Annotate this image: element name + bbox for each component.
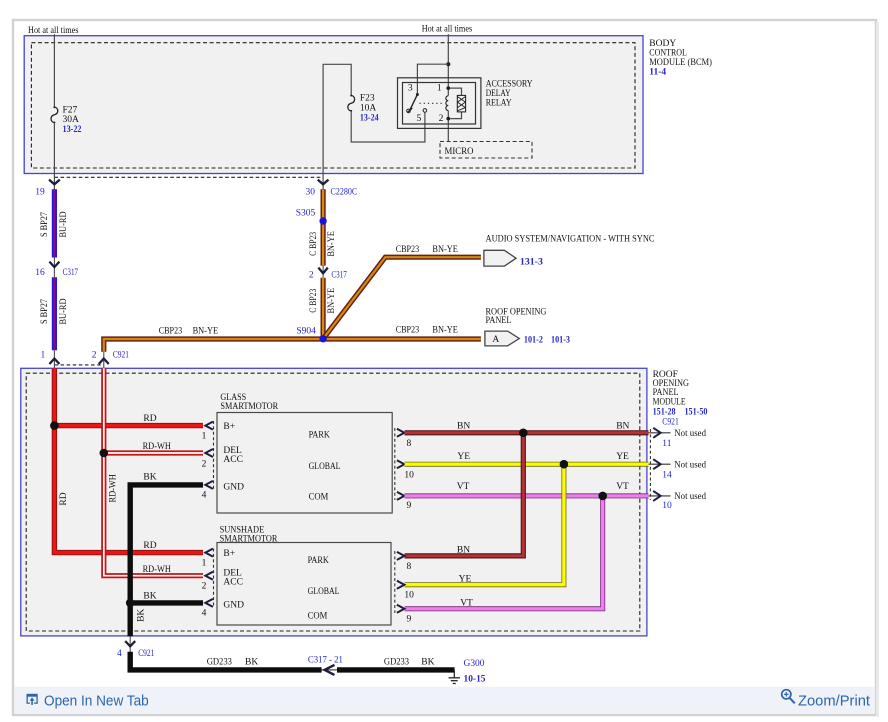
svg-text:30A: 30A (63, 115, 80, 125)
svg-text:RD: RD (143, 541, 156, 551)
relay switch arm pin 3 to 5 (407, 93, 427, 113)
svg-text:Not used: Not used (674, 492, 706, 502)
pin 19 exit arrow C2280C (35, 180, 60, 198)
svg-text:Hot at all times: Hot at all times (28, 26, 79, 36)
sunshade pin 2 arrow (202, 572, 213, 592)
module name label (653, 370, 708, 428)
svg-text:2: 2 (202, 459, 207, 469)
svg-text:151-50: 151-50 (685, 408, 708, 418)
wire branch to relay pin 3 (417, 64, 448, 94)
BCM name label (649, 39, 712, 78)
C921 pin 4 exit arrow bottom (117, 636, 155, 659)
svg-text:30: 30 (306, 187, 316, 197)
svg-text:131-3: 131-3 (520, 257, 543, 267)
relay resistor parallel branch (450, 88, 465, 119)
label Hot at all times (left) (28, 26, 79, 36)
sunshade pin 8 arrow (397, 552, 412, 572)
wire hot feed 2 vertical (447, 34, 449, 141)
svg-text:C921: C921 (662, 418, 679, 428)
svg-text:Not used: Not used (674, 460, 706, 470)
wire BK GD233 to inline connector (130, 652, 321, 670)
wire YE vertical to sunshade pin 10 (405, 464, 564, 585)
wire SBB27 BU-RD segment 1 (40, 189, 69, 257)
C921 pin 11 exit arrow (649, 428, 707, 449)
svg-text:VT: VT (616, 482, 629, 492)
svg-text:F23: F23 (360, 93, 375, 103)
splice S904 (296, 327, 326, 343)
glass pin 2 arrow (202, 449, 213, 469)
connector C921 dashed line top (54, 364, 103, 366)
svg-text:VT: VT (457, 482, 470, 492)
wire RD-WH vertical from C921-2 to sunshade ACC (104, 368, 203, 575)
svg-text:PANEL: PANEL (486, 316, 512, 326)
svg-text:GLOBAL: GLOBAL (309, 462, 341, 472)
glass left pin dashed connector line (213, 421, 215, 489)
sunshade right pin dashed connector line (394, 551, 396, 613)
svg-text:101-3: 101-3 (551, 335, 570, 345)
svg-text:PARK: PARK (309, 431, 330, 441)
wire BN glass pin 8 to C921-11 (405, 421, 649, 432)
svg-text:BN-YE: BN-YE (432, 326, 458, 336)
glass pin 1 arrow (202, 422, 213, 442)
wire RD branch to glass B+ (54, 414, 203, 426)
svg-text:BK: BK (143, 591, 156, 601)
svg-text:A: A (492, 335, 499, 345)
wire BN-YE diagonal S904 to audio connector (323, 245, 481, 339)
svg-text:BN-YE: BN-YE (327, 231, 337, 257)
C921 pin 10 exit arrow (649, 491, 707, 511)
svg-text:1: 1 (202, 558, 207, 568)
sunshade pin 10 arrow (397, 581, 414, 601)
svg-text:C317: C317 (331, 271, 347, 281)
svg-text:VT: VT (460, 598, 473, 608)
svg-text:CBP23: CBP23 (396, 326, 420, 336)
BCM module box (24, 36, 643, 174)
glass smartmotor box U2 (217, 413, 392, 514)
svg-text:DELAY: DELAY (486, 89, 511, 99)
svg-text:BN-YE: BN-YE (193, 327, 219, 337)
svg-text:RELAY: RELAY (486, 98, 512, 108)
svg-text:RD-WH: RD-WH (108, 474, 118, 502)
svg-text:Hot at all times: Hot at all times (422, 25, 473, 35)
fuse F23 (348, 93, 379, 123)
svg-text:BU-RD: BU-RD (59, 211, 69, 237)
svg-text:BU-RD: BU-RD (59, 298, 69, 324)
glass right pin dashed connector line (394, 428, 396, 500)
bottom toolbar (15, 687, 875, 714)
svg-text:1: 1 (437, 84, 442, 94)
wire F23 top to pin 30 exit (323, 64, 351, 190)
svg-text:C317: C317 (63, 268, 79, 278)
relay linkage dotted line (420, 102, 444, 104)
svg-text:ACC: ACC (223, 455, 243, 465)
toolbar open-in-new-tab icon (27, 694, 38, 705)
svg-text:BK: BK (245, 658, 258, 668)
relay coil (446, 86, 450, 120)
MICRO box (440, 142, 532, 159)
svg-text:GND: GND (223, 482, 244, 492)
svg-text:B+: B+ (223, 422, 235, 432)
relay U1 accessory delay relay box (398, 78, 533, 129)
svg-text:YE: YE (459, 575, 472, 585)
inline connector C317-21 arrow (308, 655, 343, 675)
svg-text:11: 11 (662, 439, 671, 449)
toolbar Zoom/Print text (798, 693, 870, 709)
C921 pin 14 exit arrow (649, 459, 707, 480)
svg-text:CBP23: CBP23 (159, 327, 183, 337)
wire SBB27 BU-RD segment 2 (40, 277, 69, 350)
toolbar zoom/print icon (782, 690, 795, 704)
svg-text:2: 2 (309, 271, 314, 281)
svg-text:B+: B+ (223, 549, 235, 559)
svg-text:Not used: Not used (674, 429, 706, 439)
wire RD-WH branch to glass ACC (104, 442, 203, 453)
svg-text:13-24: 13-24 (360, 114, 379, 124)
svg-text:10: 10 (404, 591, 414, 601)
svg-text:9: 9 (407, 614, 412, 624)
svg-text:Open In New Tab: Open In New Tab (44, 693, 149, 709)
svg-text:2: 2 (202, 581, 207, 591)
svg-text:BK: BK (137, 609, 147, 622)
sunshade smartmotor label (220, 525, 278, 544)
svg-text:BODY: BODY (649, 39, 676, 49)
glass pin 10 arrow (397, 460, 414, 480)
wire BK from glass GND down to module exit (130, 472, 203, 636)
svg-text:CBP23: CBP23 (396, 245, 420, 255)
sunshade pin 9 arrow (397, 605, 412, 625)
svg-text:16: 16 (35, 268, 45, 278)
glass pin 9 arrow (397, 492, 412, 511)
node junction RD-WH (100, 449, 109, 458)
BCM connector C2280C dashed line (54, 176, 323, 178)
svg-text:C BP23: C BP23 (309, 232, 319, 256)
wire BK branch to sunshade GND (130, 591, 203, 603)
svg-text:S904: S904 (296, 327, 316, 337)
C921 pin 2 entry arrow (92, 350, 129, 368)
wire RD vertical from C921-1 to sunshade B+ (54, 368, 203, 552)
svg-text:BN: BN (616, 421, 629, 431)
svg-text:C BP23: C BP23 (309, 289, 319, 313)
svg-text:ACCESSORY: ACCESSORY (486, 79, 533, 89)
svg-text:GD233: GD233 (384, 658, 409, 668)
node junction YE (560, 460, 569, 469)
svg-text:AUDIO SYSTEM/NAVIGATION - WITH: AUDIO SYSTEM/NAVIGATION - WITH SYNC (486, 234, 655, 244)
svg-text:S305: S305 (296, 209, 316, 219)
wire BN vertical to sunshade pin 8 (405, 433, 524, 556)
svg-text:RD: RD (59, 492, 69, 505)
svg-text:1: 1 (40, 350, 45, 360)
audio system label (486, 234, 655, 244)
svg-text:S BP27: S BP27 (40, 212, 50, 237)
C921 pin 1 entry arrow (40, 350, 59, 368)
svg-text:4: 4 (117, 649, 122, 659)
node junction on hot feed (446, 62, 450, 66)
svg-text:5: 5 (417, 114, 422, 124)
svg-text:C921: C921 (113, 350, 129, 360)
svg-text:G300: G300 (464, 659, 485, 669)
roof opening panel label (486, 307, 547, 326)
svg-text:MICRO: MICRO (445, 147, 474, 157)
pin 30 exit arrow C2280C (306, 180, 358, 198)
svg-text:151-28: 151-28 (653, 408, 676, 418)
wire hot feed to F27 (53, 34, 55, 107)
svg-text:BN-YE: BN-YE (432, 245, 458, 255)
svg-text:BN: BN (457, 421, 470, 431)
svg-text:YE: YE (616, 452, 629, 462)
svg-text:C317 - 21: C317 - 21 (308, 655, 343, 665)
splice S305 (296, 209, 327, 225)
svg-text:Zoom/Print: Zoom/Print (798, 693, 870, 709)
connector C317 pin 2 arrow (309, 266, 347, 281)
svg-text:101-2: 101-2 (524, 335, 543, 345)
svg-text:COM: COM (309, 492, 329, 502)
toolbar Open In New Tab text (44, 693, 149, 709)
sunshade pin 4 arrow (202, 599, 213, 619)
svg-text:MODULE: MODULE (653, 397, 686, 407)
svg-text:GLOBAL: GLOBAL (308, 587, 340, 597)
svg-text:COM: COM (308, 611, 328, 621)
wire CBP23 BN-YE from C317 to S904 (309, 278, 337, 339)
connector C317 pin 16 arrow (35, 258, 78, 278)
svg-text:YE: YE (457, 452, 470, 462)
roof opening panel module box (21, 368, 647, 636)
sunshade left pin dashed connector line (213, 549, 215, 608)
svg-text:C2280C: C2280C (331, 187, 358, 197)
svg-text:RD-WH: RD-WH (143, 442, 171, 452)
svg-text:3: 3 (408, 84, 413, 94)
svg-text:GND: GND (223, 600, 244, 610)
svg-text:19: 19 (35, 188, 45, 198)
wire CBP23 BN-YE from pin30 to S305 (309, 189, 337, 265)
svg-text:SMARTMOTOR: SMARTMOTOR (220, 402, 278, 412)
sunshade pin 1 arrow (202, 549, 213, 569)
wire F27 to pin 19 exit (53, 123, 55, 191)
wire YE glass pin 10 to C921-14 (405, 452, 649, 464)
svg-text:RD: RD (143, 414, 156, 424)
svg-text:10-15: 10-15 (464, 675, 486, 685)
wire F23 bottom to relay pin 5 (351, 111, 425, 142)
svg-text:10: 10 (662, 501, 672, 511)
relay pin numbers (408, 84, 444, 125)
connector to audio system 131-3 (484, 250, 543, 267)
svg-text:4: 4 (202, 491, 207, 501)
wire VT glass pin 9 to C921-10 (405, 482, 649, 496)
svg-text:BN: BN (457, 545, 470, 555)
wire VT vertical to sunshade pin 9 (405, 496, 603, 609)
svg-text:GD233: GD233 (207, 658, 232, 668)
ground G300 (449, 659, 486, 685)
svg-text:4: 4 (202, 609, 207, 619)
connector A to roof opening panel (485, 331, 570, 346)
svg-text:CONTROL: CONTROL (649, 49, 687, 59)
svg-text:2: 2 (92, 350, 97, 360)
svg-text:BN-YE: BN-YE (327, 288, 337, 314)
svg-text:S BP27: S BP27 (40, 299, 50, 324)
glass smartmotor label (220, 393, 278, 412)
svg-text:PARK: PARK (308, 556, 329, 566)
svg-text:10: 10 (404, 470, 414, 480)
wire BK GD233 to ground (337, 658, 455, 670)
svg-text:BK: BK (143, 472, 156, 482)
svg-text:C921: C921 (138, 649, 154, 659)
label Hot at all times (right) (422, 25, 473, 35)
svg-text:ACC: ACC (223, 577, 243, 587)
node junction VT (598, 492, 607, 501)
C921 right dashed connector line (649, 429, 651, 500)
svg-text:BK: BK (421, 658, 434, 668)
node junction RD (50, 421, 59, 430)
node junction BN (519, 429, 528, 438)
fuse F27 (51, 105, 82, 135)
svg-text:2: 2 (439, 114, 444, 124)
svg-text:MODULE (BCM): MODULE (BCM) (649, 57, 712, 68)
svg-text:11-4: 11-4 (649, 68, 666, 78)
svg-text:8: 8 (407, 439, 412, 449)
svg-text:9: 9 (407, 501, 412, 511)
node junction BK (126, 599, 135, 608)
svg-text:13-22: 13-22 (63, 125, 82, 135)
glass pin 8 arrow (397, 429, 412, 449)
svg-text:1: 1 (202, 432, 207, 442)
svg-text:RD-WH: RD-WH (143, 565, 171, 575)
sunshade smartmotor box U3 (217, 543, 391, 626)
svg-text:14: 14 (662, 470, 672, 480)
svg-text:10A: 10A (360, 103, 377, 113)
wire BN-YE horizontal C921-2 to roof panel connector (104, 326, 481, 352)
glass pin 4 arrow (202, 481, 213, 501)
svg-text:8: 8 (407, 562, 412, 572)
svg-text:F27: F27 (63, 105, 78, 115)
